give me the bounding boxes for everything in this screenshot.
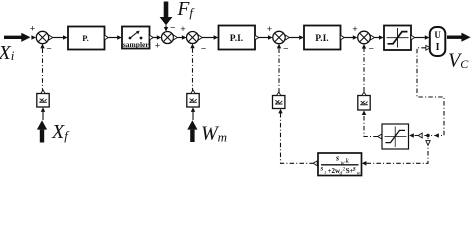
svg-text:+: + <box>352 24 357 34</box>
svg-text:w: w <box>341 160 345 166</box>
svg-text:−: − <box>170 23 175 33</box>
svg-text:+: + <box>267 24 272 34</box>
svg-text:−: − <box>369 44 374 54</box>
svg-text:+: + <box>180 24 185 34</box>
svg-text:sampler: sampler <box>123 40 150 49</box>
svg-text:P.: P. <box>82 33 89 43</box>
svg-text:s: s <box>352 165 356 173</box>
svg-text:P.I.: P.I. <box>230 34 243 44</box>
svg-text:w: w <box>357 171 361 177</box>
svg-text:−: − <box>201 44 206 54</box>
svg-text:s: s <box>335 154 339 163</box>
svg-text:−: − <box>283 44 288 54</box>
svg-text:I: I <box>436 42 440 53</box>
svg-text:P.I.: P.I. <box>315 34 328 44</box>
svg-text:+: + <box>30 24 35 34</box>
svg-text:+: + <box>155 41 160 51</box>
svg-text:s: s <box>320 165 324 173</box>
svg-text:U: U <box>434 30 441 40</box>
svg-text:−: − <box>46 44 51 54</box>
